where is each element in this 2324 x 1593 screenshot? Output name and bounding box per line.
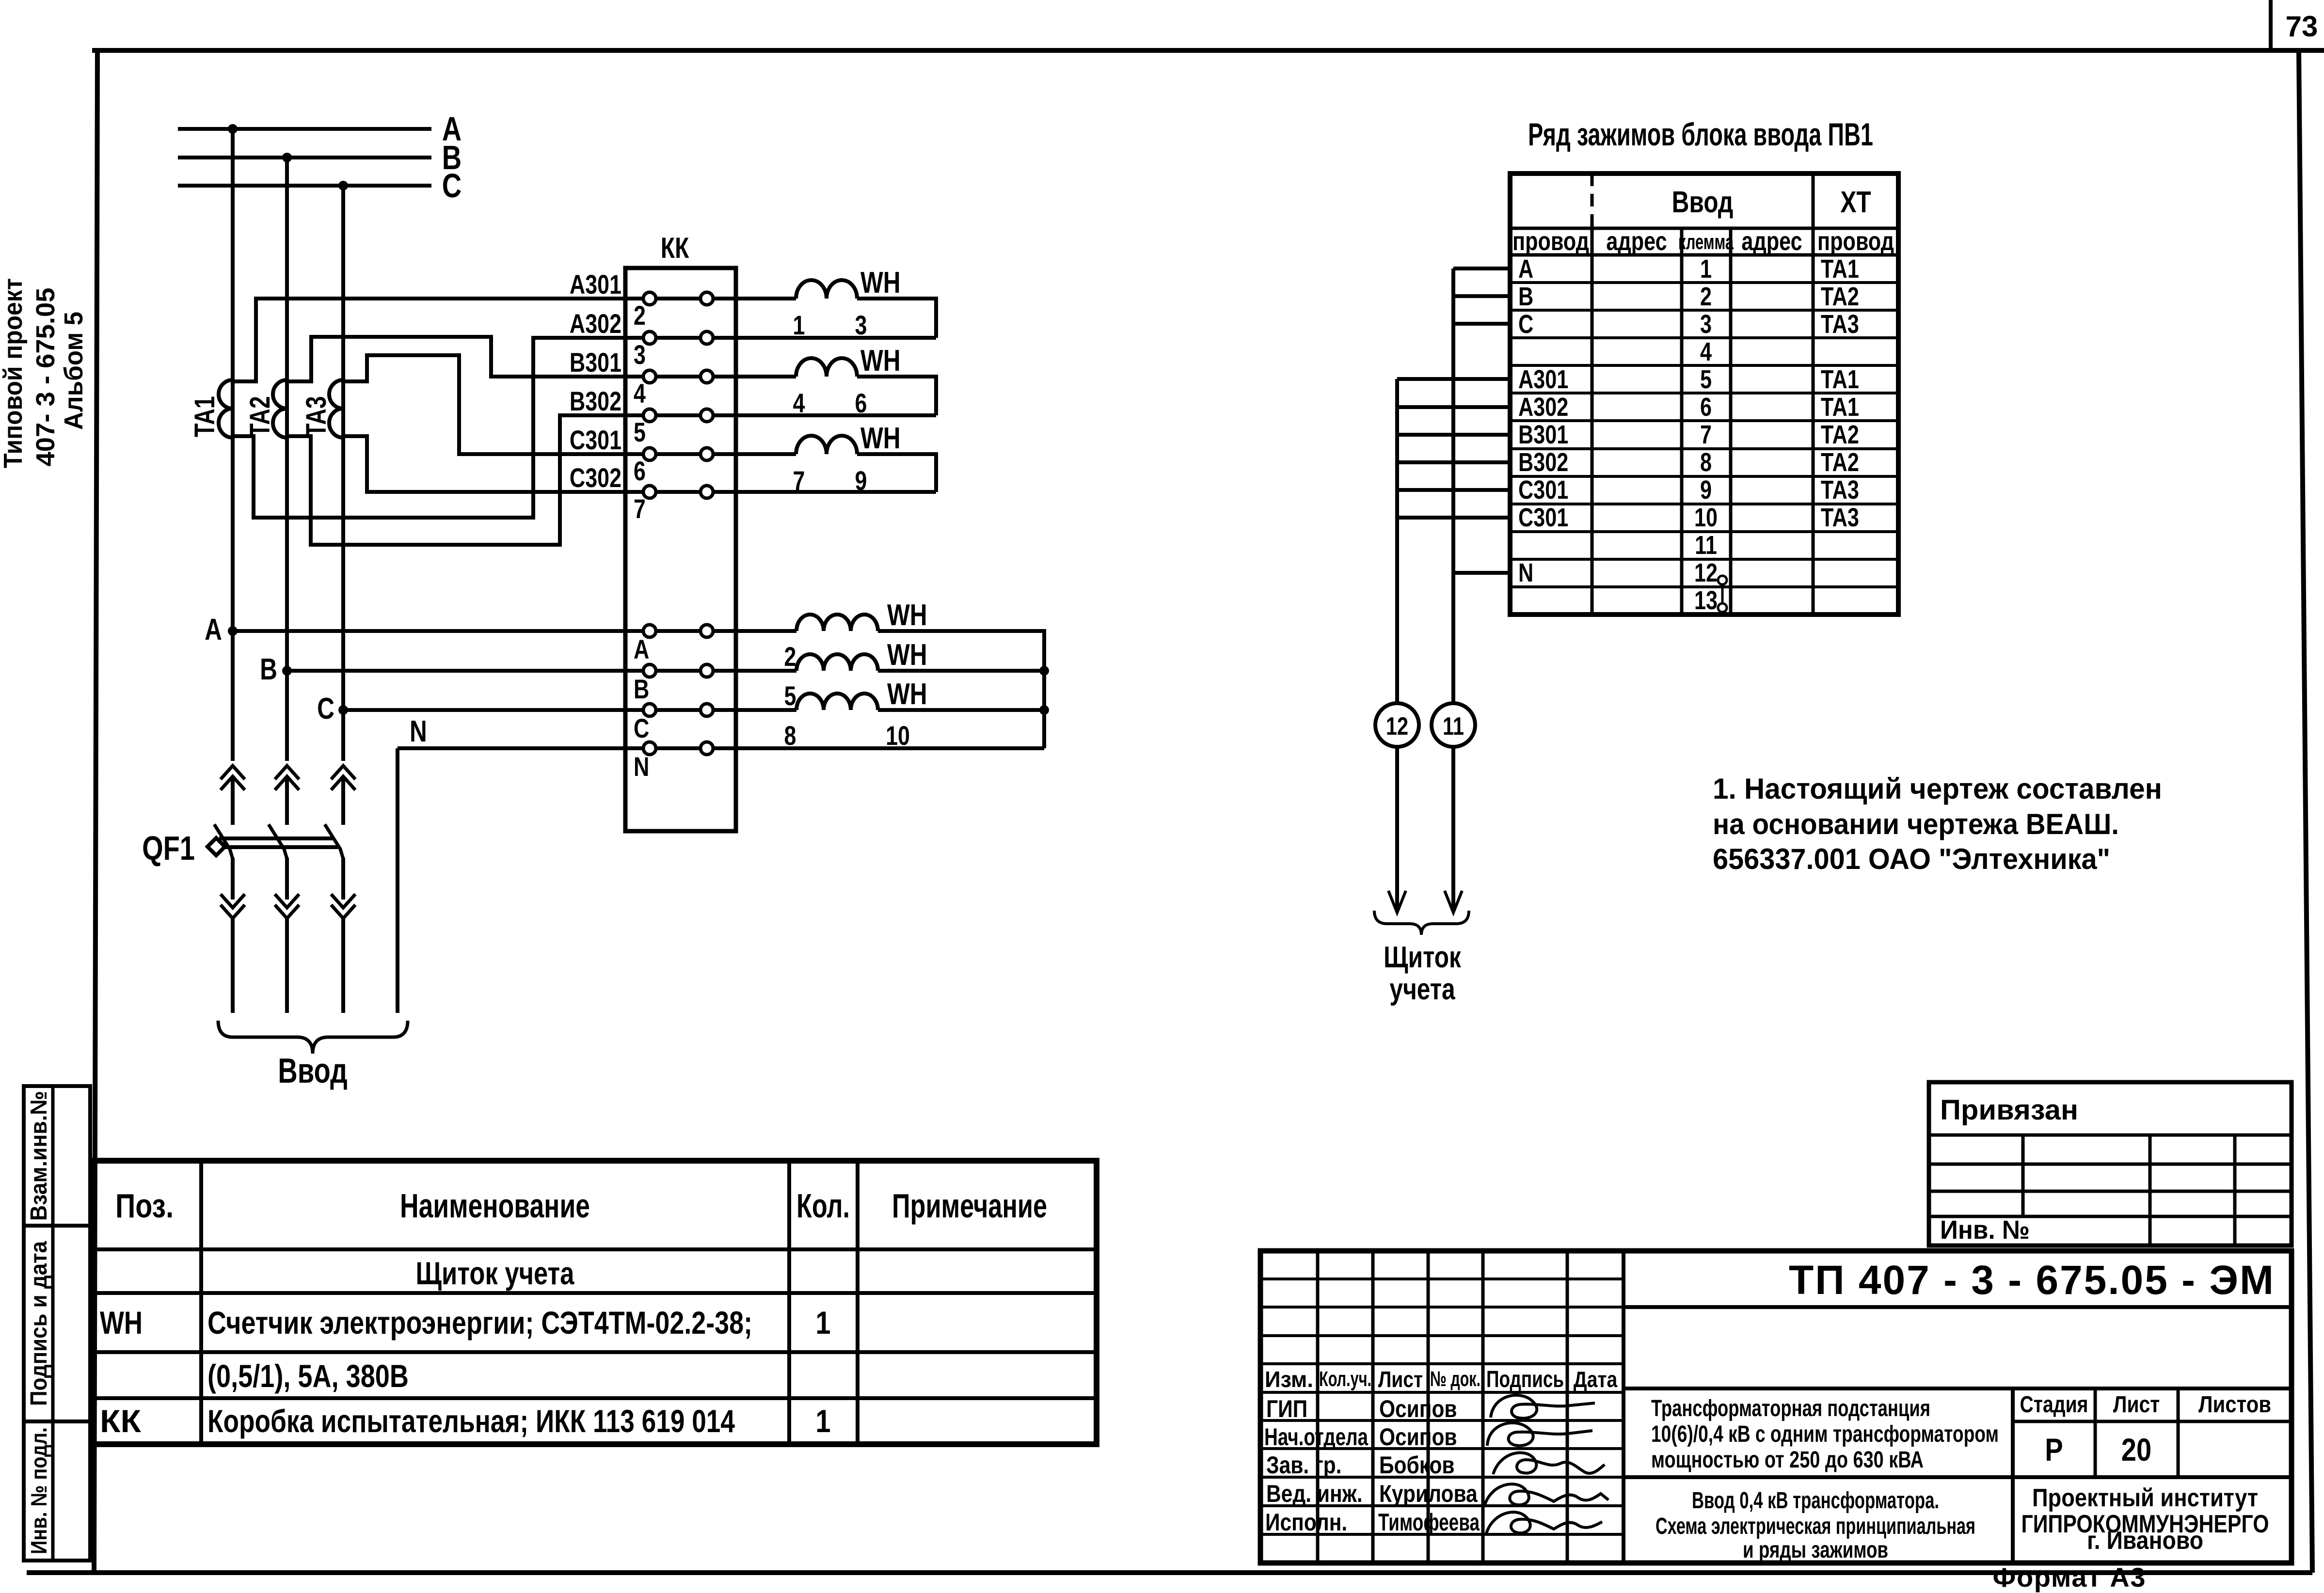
- svg-text:Лист: Лист: [2113, 1392, 2160, 1418]
- svg-text:13: 13: [1694, 586, 1718, 615]
- svg-text:ТА2: ТА2: [1821, 448, 1859, 477]
- svg-text:Нач.отдела: Нач.отдела: [1264, 1423, 1369, 1451]
- svg-text:№ док.: № док.: [1430, 1367, 1480, 1391]
- svg-text:Поз.: Поз.: [115, 1186, 174, 1225]
- svg-text:3: 3: [634, 339, 646, 370]
- svg-text:Вед. инж.: Вед. инж.: [1266, 1480, 1363, 1507]
- svg-text:Альбом 5: Альбом 5: [59, 312, 88, 430]
- svg-text:С: С: [1518, 310, 1533, 339]
- svg-text:учета: учета: [1389, 972, 1455, 1006]
- svg-text:5: 5: [634, 417, 646, 447]
- svg-text:7: 7: [1700, 421, 1712, 450]
- svg-text:N: N: [1518, 559, 1533, 588]
- svg-text:Трансформаторная подстанция: Трансформаторная подстанция: [1651, 1395, 1930, 1421]
- svg-text:9: 9: [855, 465, 867, 496]
- svg-text:Зав. гр.: Зав. гр.: [1266, 1451, 1341, 1479]
- svg-text:Наименование: Наименование: [400, 1186, 590, 1225]
- svg-text:N: N: [410, 714, 427, 748]
- svg-text:А302: А302: [570, 308, 621, 339]
- svg-text:(0,5/1), 5А, 380В: (0,5/1), 5А, 380В: [207, 1358, 409, 1394]
- svg-text:Щиток: Щиток: [1384, 940, 1462, 974]
- svg-text:Ввод: Ввод: [1672, 185, 1734, 219]
- svg-text:ТА1: ТА1: [1821, 365, 1859, 394]
- svg-text:и ряды зажимов: и ряды зажимов: [1743, 1537, 1888, 1563]
- svg-text:на основании чертежа ВЕАШ.: на основании чертежа ВЕАШ.: [1713, 808, 2119, 840]
- svg-text:Взам.инв.№: Взам.инв.№: [26, 1091, 52, 1221]
- svg-text:Осипов: Осипов: [1379, 1423, 1457, 1451]
- svg-text:WH: WH: [887, 598, 927, 632]
- svg-text:С301: С301: [570, 425, 621, 455]
- svg-text:3: 3: [1700, 310, 1712, 339]
- svg-text:А302: А302: [1518, 393, 1568, 422]
- svg-text:C: C: [634, 713, 649, 743]
- svg-text:4: 4: [793, 388, 805, 418]
- svg-text:2: 2: [784, 641, 796, 672]
- svg-text:Инв. №: Инв. №: [1940, 1215, 2030, 1245]
- svg-text:В302: В302: [570, 386, 621, 416]
- svg-text:B: B: [634, 674, 649, 704]
- svg-text:Стадия: Стадия: [2020, 1392, 2088, 1418]
- svg-text:адрес: адрес: [1606, 227, 1667, 256]
- svg-text:Счетчик электроэнергии; СЭТ4ТМ: Счетчик электроэнергии; СЭТ4ТМ-02.2-38;: [207, 1305, 752, 1341]
- svg-text:407- 3 - 675.05: 407- 3 - 675.05: [31, 288, 60, 467]
- svg-text:11: 11: [1443, 712, 1464, 741]
- svg-text:20: 20: [2121, 1432, 2151, 1467]
- svg-text:QF1: QF1: [142, 830, 195, 867]
- svg-text:А301: А301: [570, 269, 621, 300]
- svg-text:В302: В302: [1518, 448, 1568, 477]
- svg-text:ТА2: ТА2: [1821, 283, 1859, 312]
- svg-text:А: А: [205, 613, 222, 647]
- svg-text:Бобков: Бобков: [1379, 1451, 1455, 1479]
- svg-text:Лист: Лист: [1378, 1367, 1423, 1392]
- svg-text:В: В: [1518, 283, 1533, 312]
- svg-text:провод: провод: [1817, 227, 1894, 256]
- svg-text:10: 10: [1694, 504, 1718, 533]
- svg-text:Схема электрическая принципиал: Схема электрическая принципиальная: [1655, 1513, 1975, 1539]
- svg-text:73: 73: [2286, 10, 2318, 43]
- svg-text:Типовой проект: Типовой проект: [0, 278, 28, 468]
- svg-text:Примечание: Примечание: [892, 1186, 1047, 1225]
- svg-text:6: 6: [855, 388, 867, 418]
- svg-text:ТА3: ТА3: [1821, 476, 1859, 505]
- svg-text:г. Иваново: г. Иваново: [2087, 1527, 2203, 1555]
- svg-text:4: 4: [634, 378, 646, 409]
- svg-text:ТА1: ТА1: [1821, 255, 1859, 284]
- svg-text:клемма: клемма: [1678, 231, 1734, 254]
- svg-text:WH: WH: [860, 421, 901, 455]
- svg-text:WH: WH: [887, 677, 927, 711]
- svg-text:Кол.уч.: Кол.уч.: [1319, 1367, 1371, 1391]
- svg-text:ТА1: ТА1: [1821, 393, 1859, 422]
- svg-text:1: 1: [815, 1305, 830, 1341]
- svg-text:11: 11: [1695, 531, 1717, 560]
- svg-text:В301: В301: [570, 347, 621, 378]
- svg-text:Курилова: Курилова: [1379, 1480, 1478, 1507]
- svg-text:С: С: [317, 692, 334, 726]
- svg-text:В: В: [260, 652, 277, 686]
- svg-text:8: 8: [784, 720, 796, 751]
- svg-text:ГИП: ГИП: [1266, 1395, 1307, 1422]
- svg-text:2: 2: [634, 300, 646, 331]
- svg-text:В301: В301: [1518, 421, 1568, 450]
- svg-text:Изм.: Изм.: [1265, 1367, 1313, 1392]
- svg-text:ТА3: ТА3: [1821, 310, 1859, 339]
- svg-text:3: 3: [855, 310, 867, 340]
- svg-text:Подпись: Подпись: [1486, 1367, 1564, 1392]
- svg-text:Ряд зажимов блока ввода ПВ1: Ряд зажимов блока ввода ПВ1: [1528, 116, 1873, 152]
- svg-text:Коробка испытательная; ИКК 113: Коробка испытательная; ИКК 113 619 014: [207, 1404, 735, 1439]
- svg-text:Листов: Листов: [2198, 1392, 2271, 1418]
- svg-text:С301: С301: [1518, 504, 1568, 533]
- svg-text:Р: Р: [2045, 1432, 2063, 1467]
- svg-text:ХТ: ХТ: [1840, 185, 1871, 219]
- svg-text:КК: КК: [661, 232, 689, 264]
- svg-text:ТА2: ТА2: [1821, 421, 1859, 450]
- svg-text:С: С: [442, 167, 462, 205]
- svg-text:4: 4: [1700, 338, 1712, 367]
- svg-text:6: 6: [634, 456, 646, 486]
- svg-text:7: 7: [793, 465, 805, 496]
- svg-text:ТА2: ТА2: [244, 396, 276, 437]
- svg-text:Привязан: Привязан: [1940, 1094, 2078, 1126]
- svg-text:7: 7: [634, 493, 646, 524]
- svg-text:2: 2: [1700, 283, 1712, 312]
- svg-text:9: 9: [1700, 476, 1712, 505]
- svg-text:ТА3: ТА3: [301, 396, 332, 437]
- svg-text:Осипов: Осипов: [1379, 1395, 1457, 1422]
- svg-text:А: А: [1518, 255, 1533, 284]
- svg-text:мощностью от 250 до 630 кВА: мощностью от 250 до 630 кВА: [1651, 1447, 1924, 1473]
- svg-text:Исполн.: Исполн.: [1265, 1509, 1347, 1536]
- svg-text:N: N: [634, 751, 649, 782]
- svg-text:5: 5: [784, 680, 796, 711]
- svg-text:КК: КК: [100, 1404, 142, 1439]
- svg-text:ТА1: ТА1: [189, 396, 221, 437]
- svg-text:8: 8: [1700, 448, 1712, 477]
- svg-text:1: 1: [815, 1404, 830, 1439]
- svg-text:Тимофеева: Тимофеева: [1378, 1509, 1480, 1536]
- svg-text:Дата: Дата: [1574, 1367, 1618, 1392]
- svg-text:10: 10: [886, 720, 910, 751]
- svg-text:С301: С301: [1518, 476, 1568, 505]
- svg-text:A: A: [634, 634, 649, 664]
- svg-text:ТА3: ТА3: [1821, 504, 1859, 533]
- svg-text:Формат А3: Формат А3: [1993, 1562, 2146, 1593]
- svg-text:1. Настоящий чертеж составлен: 1. Настоящий чертеж составлен: [1713, 773, 2162, 805]
- svg-text:10(6)/0,4 кВ с одним трансформ: 10(6)/0,4 кВ с одним трансформатором: [1651, 1421, 1999, 1447]
- svg-text:1: 1: [1700, 255, 1712, 284]
- svg-text:Подпись и дата: Подпись и дата: [26, 1241, 52, 1406]
- svg-text:12: 12: [1694, 559, 1718, 588]
- svg-text:Проектный институт: Проектный институт: [2032, 1484, 2258, 1512]
- svg-text:WH: WH: [887, 638, 927, 672]
- svg-text:WH: WH: [100, 1305, 143, 1341]
- svg-text:Ввод: Ввод: [278, 1051, 348, 1090]
- svg-text:5: 5: [1700, 365, 1712, 394]
- svg-text:ТП 407 - 3 - 675.05 - ЭМ: ТП 407 - 3 - 675.05 - ЭМ: [1789, 1257, 2274, 1303]
- svg-text:Щиток учета: Щиток учета: [416, 1256, 575, 1291]
- svg-text:Инв. № подл.: Инв. № подл.: [26, 1427, 51, 1554]
- svg-text:656337.001 ОАО "Элтехника": 656337.001 ОАО "Элтехника": [1713, 843, 2110, 875]
- svg-text:провод: провод: [1512, 227, 1589, 256]
- svg-text:12: 12: [1386, 712, 1408, 741]
- svg-text:С302: С302: [570, 462, 621, 493]
- svg-text:1: 1: [793, 310, 805, 340]
- svg-text:6: 6: [1700, 393, 1712, 422]
- svg-text:WH: WH: [860, 266, 901, 300]
- svg-text:адрес: адрес: [1741, 227, 1802, 256]
- svg-text:Ввод 0,4 кВ трансформатора.: Ввод 0,4 кВ трансформатора.: [1692, 1487, 1939, 1514]
- svg-text:А301: А301: [1518, 365, 1568, 394]
- svg-text:WH: WH: [860, 344, 901, 378]
- svg-text:Кол.: Кол.: [796, 1186, 850, 1225]
